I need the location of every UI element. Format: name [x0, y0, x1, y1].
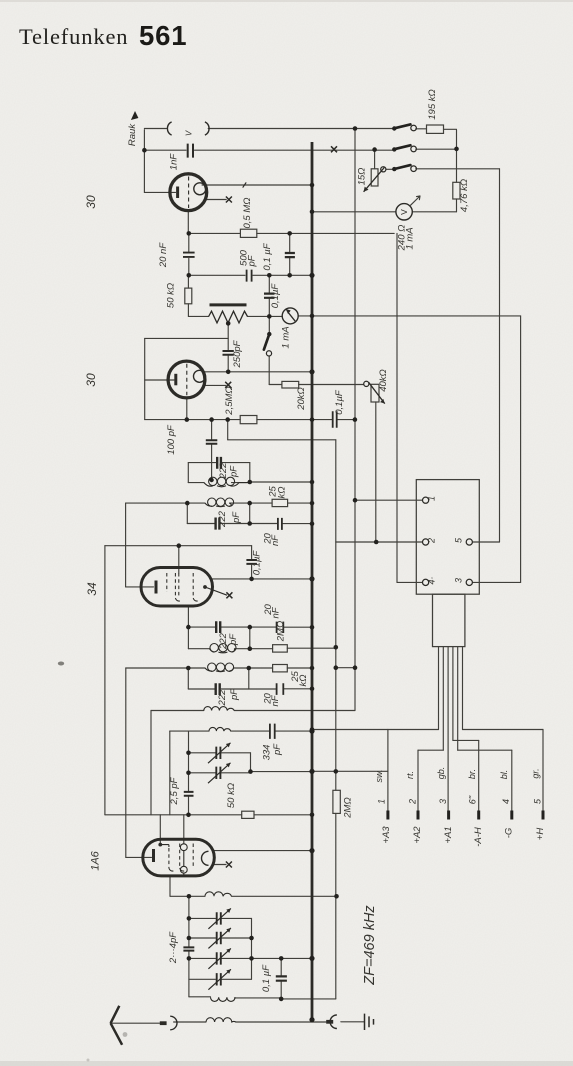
svg-text:kΩ: kΩ	[298, 675, 309, 687]
svg-text:-A-H: -A-H	[473, 827, 484, 847]
svg-text:3: 3	[438, 799, 448, 804]
svg-text:1A6: 1A6	[90, 850, 102, 870]
svg-text:20kΩ: 20kΩ	[296, 387, 307, 411]
svg-text:222: 222	[217, 510, 228, 528]
svg-text:30: 30	[84, 195, 98, 209]
svg-text:2···4pF: 2···4pF	[168, 931, 179, 964]
svg-text:6'': 6''	[467, 796, 477, 805]
svg-text:0,1µF: 0,1µF	[334, 389, 345, 415]
svg-text:0,1µF: 0,1µF	[251, 550, 262, 576]
svg-text:Rauk: Rauk	[127, 123, 138, 146]
svg-text:30: 30	[84, 373, 98, 387]
svg-text:1: 1	[426, 496, 436, 501]
svg-text:0,1µF: 0,1µF	[270, 283, 281, 309]
svg-text:2MΩ: 2MΩ	[276, 621, 287, 642]
svg-text:2: 2	[426, 538, 436, 544]
svg-text:bl.: bl.	[499, 770, 509, 780]
svg-text:br.: br.	[467, 769, 477, 779]
svg-text:561: 561	[139, 20, 187, 51]
svg-text:rt.: rt.	[405, 771, 415, 779]
svg-text:4·: 4·	[426, 576, 436, 584]
svg-text:+A3: +A3	[381, 826, 392, 844]
svg-text:-G: -G	[503, 828, 514, 839]
svg-text:pF: pF	[229, 688, 240, 701]
svg-text:pF: pF	[272, 743, 283, 756]
svg-text:V: V	[399, 209, 409, 215]
svg-text:40kΩ: 40kΩ	[378, 369, 389, 392]
svg-text:2,5MΩ: 2,5MΩ	[224, 386, 235, 415]
svg-text:nF: nF	[270, 534, 281, 546]
svg-text:pF: pF	[231, 511, 242, 524]
svg-text:pF: pF	[228, 465, 239, 478]
svg-text:250pF: 250pF	[232, 339, 243, 368]
svg-text:50 kΩ: 50 kΩ	[226, 783, 237, 808]
svg-text:1nF: 1nF	[168, 153, 179, 171]
svg-text:nF: nF	[270, 606, 281, 618]
svg-text:15Ω: 15Ω	[356, 168, 367, 186]
svg-text:4: 4	[501, 799, 511, 804]
svg-text:4,76 kΩ: 4,76 kΩ	[459, 179, 470, 212]
svg-text:2MΩ: 2MΩ	[343, 797, 354, 818]
svg-text:20 nF: 20 nF	[158, 242, 169, 268]
svg-text:34: 34	[85, 582, 99, 596]
svg-text:gr.: gr.	[531, 768, 541, 778]
svg-text:195 kΩ: 195 kΩ	[427, 89, 438, 119]
svg-text:V: V	[184, 130, 193, 136]
svg-text:pF: pF	[228, 633, 239, 646]
svg-text:2,5 pF: 2,5 pF	[169, 776, 180, 805]
svg-text:50 kΩ: 50 kΩ	[166, 283, 177, 308]
svg-text:1: 1	[377, 799, 387, 804]
svg-text:222: 222	[217, 689, 228, 707]
svg-text:0,1 µF: 0,1 µF	[261, 964, 272, 992]
svg-text:gb.: gb.	[436, 767, 446, 780]
svg-text:kΩ: kΩ	[277, 487, 288, 499]
svg-text:+A1: +A1	[443, 826, 454, 843]
svg-text:sw.: sw.	[374, 769, 384, 782]
svg-text:+H: +H	[535, 828, 546, 841]
svg-text:0,5 MΩ: 0,5 MΩ	[242, 198, 253, 229]
svg-text:0,1 µF: 0,1 µF	[262, 242, 273, 270]
svg-text:3: 3	[453, 578, 463, 583]
svg-text:pF: pF	[247, 254, 258, 267]
svg-text:+A2: +A2	[412, 826, 423, 844]
svg-text:nF: nF	[270, 694, 281, 706]
svg-text:Telefunken: Telefunken	[19, 24, 128, 49]
svg-text:1 mA: 1 mA	[281, 326, 292, 348]
svg-text:100 pF: 100 pF	[166, 424, 177, 455]
svg-text:1 mA: 1 mA	[405, 227, 416, 249]
svg-text:ZF=469 kHz: ZF=469 kHz	[362, 905, 378, 986]
svg-text:2: 2	[408, 799, 418, 805]
